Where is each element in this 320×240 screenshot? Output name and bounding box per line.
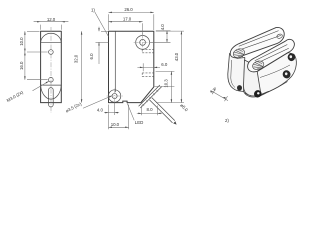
beam axis line 2 bbox=[150, 100, 173, 123]
window pane line 1 bbox=[139, 85, 160, 106]
LED dark ellipse bbox=[237, 85, 242, 91]
lens capsule bbox=[49, 88, 54, 107]
bottom bowl arc bbox=[41, 85, 62, 99]
inner vertical line bbox=[114, 31, 116, 92]
svg-text:10.3: 10.3 bbox=[163, 79, 168, 88]
dimension 10.0 bbox=[27, 30, 40, 32]
front bar slab bbox=[248, 39, 295, 72]
svg-text:17.0: 17.0 bbox=[123, 16, 132, 21]
bottom bevel face bbox=[244, 91, 269, 97]
beam axis line 1 bbox=[152, 98, 175, 121]
bottom-left hole (side view) outer bbox=[108, 90, 120, 102]
hidden slot 1 bbox=[142, 49, 154, 52]
dimension 4.0 (top right) bbox=[156, 30, 171, 32]
svg-text:16.0: 16.0 bbox=[19, 61, 24, 70]
body face inner line bbox=[260, 65, 290, 78]
far window dark ring bbox=[282, 69, 292, 79]
dimension 6.0 (right mid) bbox=[142, 63, 144, 71]
svg-text:10.0: 10.0 bbox=[111, 122, 120, 127]
A dimension bbox=[211, 90, 229, 100]
mounting hole bottom (front view) bbox=[49, 77, 54, 82]
front unit mid slab bbox=[244, 60, 262, 96]
svg-text:6.0: 6.0 bbox=[161, 62, 168, 67]
dimension 43.0 bbox=[156, 30, 184, 32]
svg-text:8.0: 8.0 bbox=[147, 107, 154, 112]
body right face bbox=[257, 53, 296, 95]
window hatch bbox=[143, 90, 159, 106]
front bar ridge A bbox=[255, 45, 287, 61]
mounting hole top (front view) bbox=[49, 50, 54, 55]
rear body inner line bbox=[231, 60, 235, 88]
right end dark ring hole bbox=[287, 52, 296, 62]
front bar hatched window bbox=[251, 59, 265, 71]
hidden slot 2 bbox=[142, 73, 154, 77]
rear bar ridge A bbox=[239, 31, 279, 47]
dome chord line bbox=[41, 41, 62, 43]
dimension 26.0 bbox=[108, 14, 110, 30]
top mounting hole (side view) outer bbox=[136, 36, 150, 50]
dimension 10.0 (bottom) bbox=[108, 115, 110, 129]
dimension 32.0 bbox=[81, 31, 83, 102]
dimension 8.0 bbox=[141, 106, 143, 116]
dimension 16.0 bbox=[27, 79, 48, 81]
rear unit left body slab bbox=[228, 54, 245, 92]
rear bar right cap ellipse bbox=[276, 33, 283, 39]
dome arc bbox=[41, 33, 62, 42]
dimension 17.0 bbox=[142, 23, 144, 34]
svg-text:4.0: 4.0 bbox=[97, 108, 104, 113]
front view body outline bbox=[41, 31, 62, 102]
svg-text:43.0: 43.0 bbox=[174, 52, 179, 61]
svg-text:12.0: 12.0 bbox=[47, 17, 56, 22]
top hole centerlines bbox=[134, 41, 152, 43]
window pane line 2 bbox=[140, 87, 161, 108]
label LED with leader bbox=[127, 103, 134, 120]
top mounting hole inner bbox=[140, 40, 146, 46]
side view outline with bevel and LED notch bbox=[109, 31, 154, 102]
beam arrow bbox=[173, 121, 176, 124]
svg-text:10.0: 10.0 bbox=[19, 37, 24, 46]
svg-text:1): 1) bbox=[91, 7, 95, 12]
svg-text:6.0: 6.0 bbox=[89, 53, 94, 60]
svg-text:26.0: 26.0 bbox=[124, 7, 133, 12]
vertical centerline bbox=[50, 27, 52, 113]
bottom hole centerlines bbox=[107, 95, 123, 97]
leader M3.0 (2x) bbox=[33, 81, 49, 91]
svg-text:32.0: 32.0 bbox=[73, 54, 78, 63]
svg-text:4.0: 4.0 bbox=[160, 24, 165, 31]
footnote 1) with leader bbox=[95, 12, 109, 37]
rear bar ridge B bbox=[237, 35, 281, 51]
bottom edge curve bbox=[261, 82, 288, 95]
front bar ridge B bbox=[253, 48, 288, 65]
dimension 12.0 bbox=[40, 25, 42, 30]
rear bar slab bbox=[230, 27, 284, 57]
svg-text:2): 2) bbox=[225, 118, 229, 123]
dimension 6.0 (left, dome depth) bbox=[96, 41, 109, 43]
dimension 10.3 bbox=[156, 70, 175, 72]
internal horizontal line bbox=[41, 84, 62, 86]
svg-text:LED: LED bbox=[135, 120, 143, 125]
rear bar hatched window bbox=[232, 47, 246, 59]
bottom-left hole inner bbox=[112, 93, 117, 98]
dimension 4.0 (bottom) bbox=[108, 105, 110, 116]
near black donut window bbox=[253, 89, 263, 99]
leader diameter 3.5 (2x) bbox=[83, 96, 112, 109]
